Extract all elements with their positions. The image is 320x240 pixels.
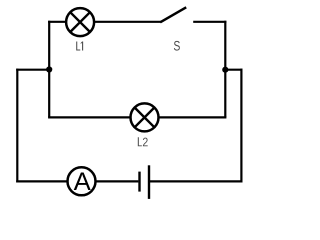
wire right outer vertical <box>240 69 242 183</box>
lamp L2 <box>131 103 159 131</box>
junction node right <box>222 67 228 73</box>
wire right link <box>225 69 242 71</box>
battery negative plate (short) <box>138 172 140 192</box>
wire bottom from ammeter to battery <box>95 180 138 182</box>
wire middle from lamp L2 to right corner <box>158 116 226 118</box>
wire top-right vertical <box>224 21 226 118</box>
wire top-left vertical <box>48 21 50 118</box>
label L2 <box>138 137 148 146</box>
wire left link <box>16 69 49 71</box>
wire top from corner to lamp L1 <box>48 21 66 23</box>
wire left outer vertical <box>16 69 18 183</box>
battery positive plate (long) <box>148 165 150 199</box>
label S <box>174 41 180 51</box>
wire bottom from left corner to ammeter <box>16 180 68 182</box>
ammeter A1 <box>68 167 96 195</box>
label L1 <box>76 42 83 51</box>
wire top from switch to right corner <box>193 21 226 23</box>
wire top from lamp L1 to switch <box>94 21 162 23</box>
wire middle from left corner to lamp L2 <box>48 116 131 118</box>
wire bottom from battery to right corner <box>150 180 243 182</box>
junction node left <box>46 66 52 72</box>
switch S blade <box>160 7 186 22</box>
lamp L1 <box>66 8 94 36</box>
